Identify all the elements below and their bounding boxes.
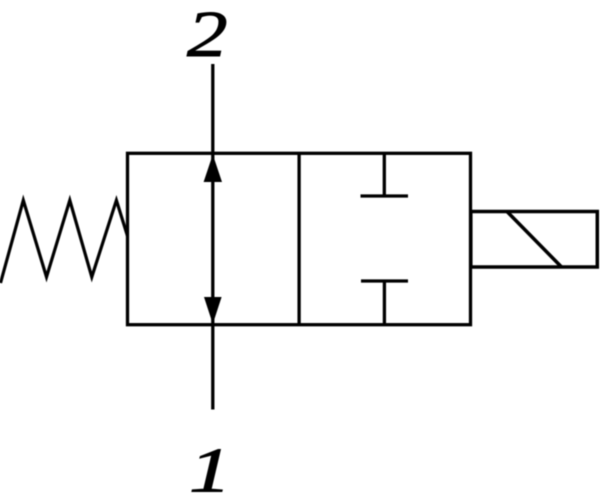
svg-text:1: 1 (189, 435, 231, 503)
svg-text:2: 2 (187, 0, 228, 70)
